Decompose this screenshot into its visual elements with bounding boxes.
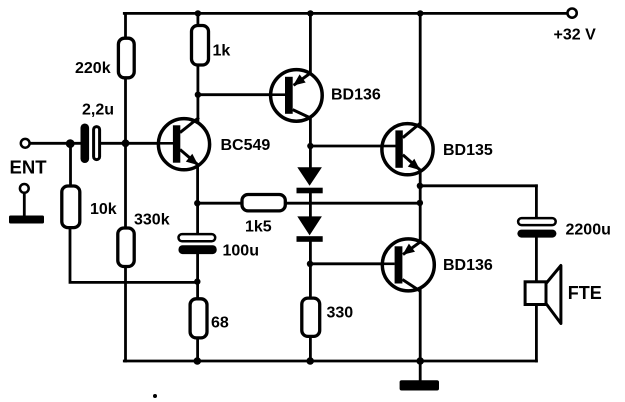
svg-text:220k: 220k <box>75 60 111 77</box>
svg-text:330: 330 <box>327 305 354 322</box>
svg-text:BD135: BD135 <box>443 142 493 159</box>
svg-text:1k5: 1k5 <box>245 219 272 236</box>
svg-text:100u: 100u <box>223 243 259 260</box>
svg-text:+32 V: +32 V <box>554 26 597 43</box>
svg-text:BC549: BC549 <box>221 137 271 154</box>
svg-text:BD136: BD136 <box>331 86 381 103</box>
svg-text:BD136: BD136 <box>443 257 493 274</box>
svg-text:1k: 1k <box>213 42 231 59</box>
svg-text:2,2u: 2,2u <box>82 102 114 119</box>
svg-text:68: 68 <box>211 314 229 331</box>
svg-text:FTE: FTE <box>568 283 602 303</box>
svg-text:330k: 330k <box>134 212 170 229</box>
svg-text:ENT: ENT <box>10 156 48 177</box>
svg-text:2200u: 2200u <box>566 222 611 239</box>
svg-text:10k: 10k <box>90 201 117 218</box>
